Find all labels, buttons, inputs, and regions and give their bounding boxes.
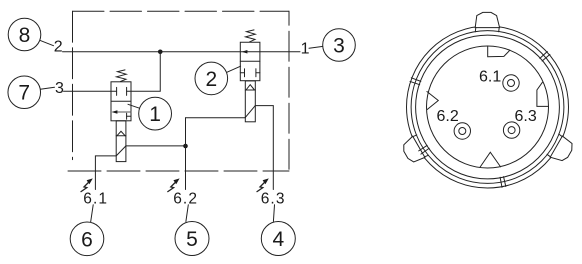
wire 2 (horizontal net at y=51.75) xyxy=(63,51,301,53)
pin 6.3 xyxy=(503,122,519,138)
svg-text:6.2: 6.2 xyxy=(173,191,198,208)
callout circle 8 xyxy=(8,18,41,51)
callout circle 6 xyxy=(70,222,104,256)
wire 3 (horizontal net at y=91.3) xyxy=(64,90,112,92)
valve Y2 body xyxy=(240,42,260,80)
connector tab top xyxy=(475,12,499,31)
pin 6.2 xyxy=(454,123,470,139)
valve Y1 return spring xyxy=(117,70,127,82)
wire branch from wire 2 down to valve 1 right port xyxy=(131,52,160,92)
callout leader 6 xyxy=(91,205,94,223)
text labels xyxy=(54,38,310,97)
svg-text:4: 4 xyxy=(272,228,284,251)
valve Y2 blocked port symbols (bottom square) xyxy=(240,69,260,77)
connector keyway right xyxy=(537,82,549,106)
valve Y2 operator block xyxy=(245,81,255,122)
valve Y1 flow arrow (bottom square) xyxy=(112,110,131,114)
svg-text:6.3: 6.3 xyxy=(261,191,286,208)
svg-text:1: 1 xyxy=(301,40,310,57)
callout circle 3 xyxy=(323,29,356,62)
svg-text:2: 2 xyxy=(205,68,217,91)
pin 6.1 xyxy=(503,75,519,91)
callout circle 4 xyxy=(261,222,295,256)
connector ring segment break upper-right xyxy=(540,51,550,61)
callout leader 4 xyxy=(273,205,274,222)
svg-text:5: 5 xyxy=(186,228,198,251)
dashed enclosure box xyxy=(68,11,289,171)
valve Y1 blocked port (bottom square right) xyxy=(127,113,131,119)
callout leader 3 xyxy=(309,46,323,48)
svg-text:3: 3 xyxy=(55,80,64,97)
electric bolt 6.1 xyxy=(81,178,93,191)
callout circle 2 xyxy=(195,62,228,95)
connector ring segment break lower-left xyxy=(419,145,430,154)
svg-text:6.3: 6.3 xyxy=(515,108,537,125)
connector keyway bottom (wedge) xyxy=(480,152,501,167)
callout leader 1 xyxy=(128,104,140,108)
connector outer shell circle xyxy=(407,26,569,188)
connector tab lower-right xyxy=(547,134,576,165)
electric bolt 6.3 xyxy=(257,178,269,191)
svg-text:7: 7 xyxy=(18,82,30,105)
callout leader 8 xyxy=(40,40,54,45)
callout circle 7 xyxy=(8,76,41,109)
wire 6.1 from valve Y1 operator to border xyxy=(95,156,116,190)
connector ring segment break upper-left xyxy=(410,78,421,85)
connector ring 3 xyxy=(416,35,560,179)
valve Y1 blocked port symbols (top square) xyxy=(111,87,131,95)
electric bolt 6.2 xyxy=(168,178,180,191)
wire from node up to valve Y2 operator xyxy=(186,117,246,119)
svg-text:3: 3 xyxy=(333,35,345,58)
node junction on wire 2 xyxy=(158,49,163,54)
wire 6.3 from valve Y2 operator to border xyxy=(255,106,273,190)
wire 6.2 vertical xyxy=(185,118,187,190)
valve Y1 operator block xyxy=(116,121,126,162)
svg-text:6.1: 6.1 xyxy=(83,191,108,208)
callout circle 1 xyxy=(139,97,172,130)
connector ring 2 xyxy=(411,31,564,184)
connector tab lower-left xyxy=(400,134,429,165)
connector insert circle xyxy=(427,46,549,168)
connector ring segment break bottom-right xyxy=(500,177,506,188)
connector keyway top xyxy=(488,46,510,57)
svg-text:6.2: 6.2 xyxy=(437,108,459,125)
callout leader 5 xyxy=(186,205,188,222)
callout circle 5 xyxy=(175,222,209,256)
valve Y2 flow arrow (top square) xyxy=(242,50,248,54)
connector keyway left (wedge) xyxy=(427,92,438,110)
svg-text:6.1: 6.1 xyxy=(479,68,501,85)
callout leader 7 xyxy=(40,87,54,89)
callout leader 2 xyxy=(227,66,241,72)
svg-text:6: 6 xyxy=(81,228,93,251)
valve Y2 return spring xyxy=(246,30,256,42)
valve Y1 body xyxy=(111,82,131,121)
node junction 6.2 xyxy=(183,144,188,149)
svg-text:2: 2 xyxy=(54,38,63,55)
svg-text:1: 1 xyxy=(149,103,161,126)
svg-text:8: 8 xyxy=(19,24,31,47)
wire from valve Y1 operator to node xyxy=(126,145,186,147)
